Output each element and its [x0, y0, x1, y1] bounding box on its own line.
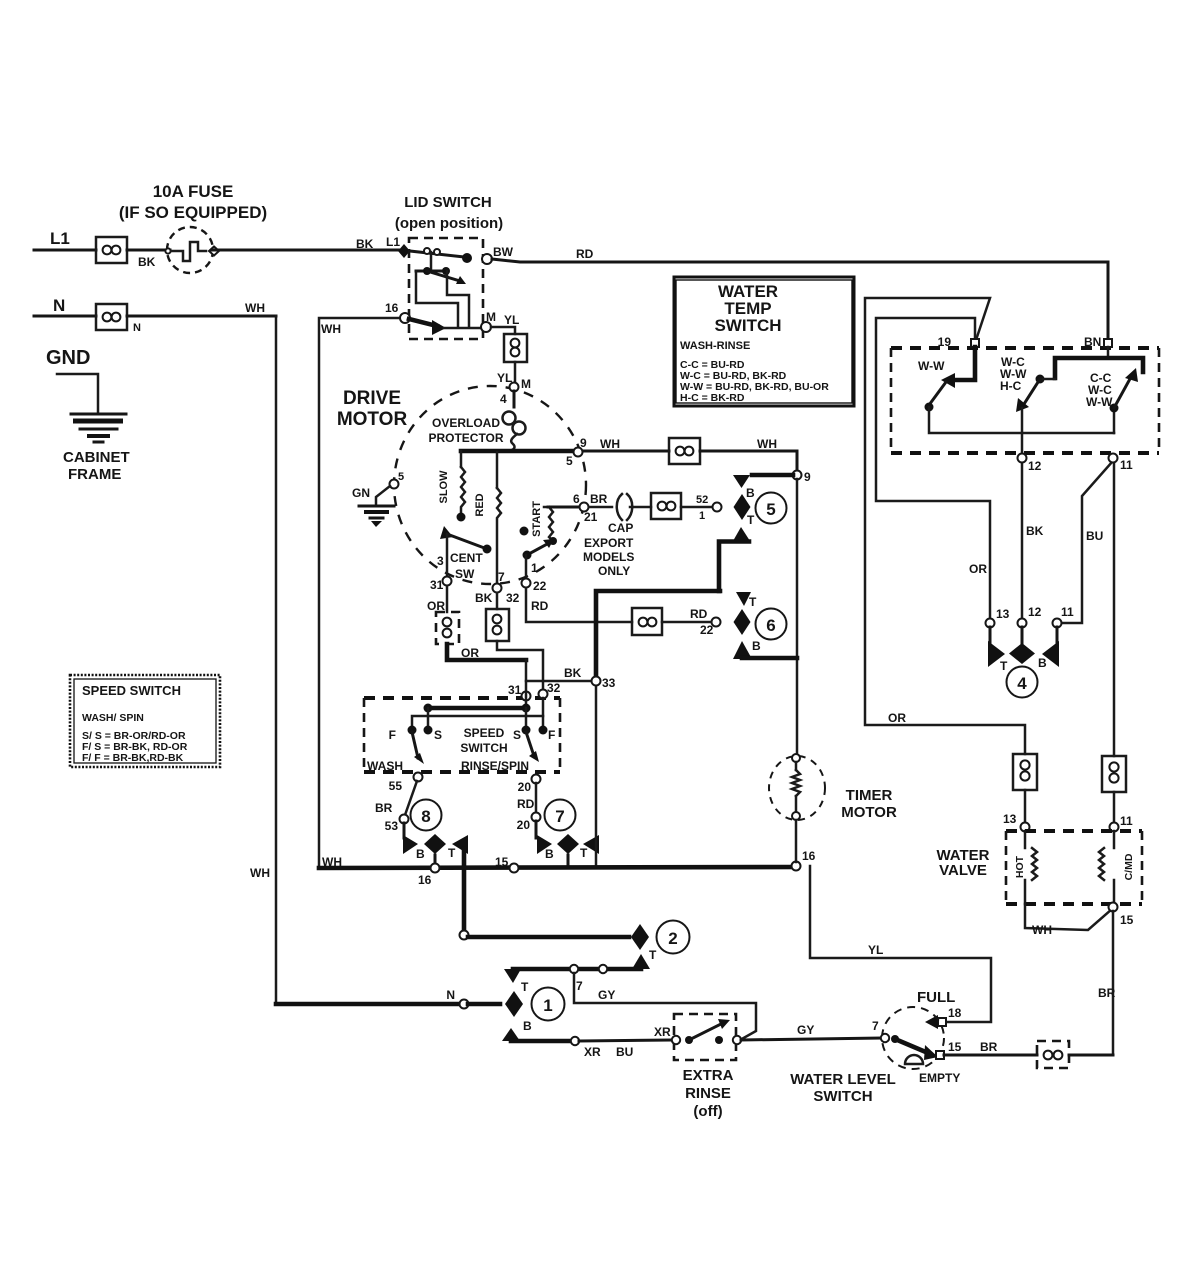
motor plug 5 (bow-tie cluster): [713, 475, 794, 591]
svg-text:OVERLOAD: OVERLOAD: [432, 416, 500, 430]
wire node31 to OR connector: [446, 586, 449, 612]
node N: [460, 1000, 469, 1009]
svg-text:EXPORT: EXPORT: [584, 536, 634, 550]
svg-text:18: 18: [948, 1006, 962, 1020]
svg-text:YL: YL: [868, 943, 883, 957]
svg-text:11: 11: [1120, 814, 1133, 828]
svg-text:22: 22: [700, 623, 714, 637]
node 12 (circle4): [1018, 619, 1027, 628]
svg-text:WASH/ SPIN: WASH/ SPIN: [82, 712, 144, 724]
svg-text:WASH-RINSE: WASH-RINSE: [680, 340, 750, 352]
node 15 (bus): [510, 864, 519, 873]
svg-text:RD: RD: [690, 607, 708, 621]
svg-text:1: 1: [543, 996, 552, 1015]
node 53: [400, 815, 409, 824]
start winding: [531, 501, 557, 545]
svg-text:(IF SO EQUIPPED): (IF SO EQUIPPED): [119, 203, 267, 222]
node 13 (circle4): [986, 619, 995, 628]
svg-text:MOTOR: MOTOR: [337, 409, 408, 430]
connector (RD): [632, 608, 662, 635]
svg-text:C/MD: C/MD: [1123, 853, 1135, 880]
wire connector to fuse: [127, 249, 170, 252]
wire to contact M: [444, 327, 481, 330]
svg-text:XR: XR: [584, 1045, 601, 1059]
wire BR connector to circle5 contact: [681, 506, 712, 509]
water level switch common contact and blade: [881, 1034, 938, 1060]
overload protector: [503, 391, 526, 450]
wire node 55 to node 53: [405, 781, 417, 815]
node 31 (speed switch): [522, 692, 531, 701]
speed switch blade wash: [412, 732, 424, 764]
terminal circle 6: [756, 609, 787, 640]
wire RD connector to circle6 contact: [662, 621, 711, 624]
start switch blade: [520, 527, 555, 579]
svg-text:GND: GND: [46, 347, 90, 369]
timer motor boundary (dashed circle): [769, 756, 825, 820]
slow winding: [438, 451, 466, 522]
svg-text:BW: BW: [493, 245, 514, 259]
wire YL from bus to water level switch FULL: [810, 866, 991, 1022]
svg-text:T: T: [749, 595, 757, 609]
label EXTRA RINSE (off): [683, 1067, 734, 1120]
cold valve solenoid: [1099, 831, 1135, 904]
svg-text:SLOW: SLOW: [438, 470, 450, 504]
svg-text:B: B: [545, 847, 554, 861]
water valve enclosure (dashed box): [1006, 831, 1142, 904]
wire 16 feed (WH) to lid switch lower pole: [319, 318, 405, 866]
svg-text:31: 31: [508, 683, 522, 697]
svg-text:9: 9: [804, 470, 811, 484]
svg-text:WH: WH: [1032, 923, 1052, 937]
wire node31 riser: [525, 681, 528, 708]
svg-text:15: 15: [495, 855, 509, 869]
svg-text:RD: RD: [531, 599, 549, 613]
drive motor boundary (dashed circle): [394, 386, 586, 584]
svg-text:B: B: [746, 486, 755, 500]
red winding: [474, 452, 505, 584]
motor plug 6 (bow-tie cluster): [712, 592, 798, 659]
connector (cold valve feed): [1102, 756, 1126, 792]
speed switch enclosure (dashed box): [364, 698, 560, 772]
temp switch BN bus bar: [1055, 347, 1143, 378]
svg-text:SWITCH: SWITCH: [460, 741, 507, 755]
svg-text:N: N: [133, 322, 141, 334]
svg-text:WH: WH: [250, 866, 270, 880]
svg-text:SWITCH: SWITCH: [813, 1088, 872, 1105]
svg-text:21: 21: [584, 510, 598, 524]
wire OR branch from node 19 (outer loop to hot valve): [865, 298, 1025, 754]
wire lower-left step: [416, 271, 458, 327]
lid switch second pole bar: [416, 267, 466, 284]
svg-text:7: 7: [498, 570, 505, 584]
svg-text:F/ F = BR-BK,RD-BK: F/ F = BR-BK,RD-BK: [82, 752, 184, 764]
svg-text:33: 33: [602, 676, 616, 690]
svg-text:M: M: [486, 310, 496, 324]
svg-text:B: B: [416, 847, 425, 861]
lid switch enclosure (dashed box): [409, 238, 483, 339]
svg-text:B: B: [523, 1019, 532, 1033]
motor plug 8 (bow-tie cluster): [403, 823, 468, 937]
svg-text:CAP: CAP: [608, 521, 633, 535]
svg-text:DRIVE: DRIVE: [343, 388, 401, 409]
svg-text:HOT: HOT: [1014, 855, 1026, 878]
speed switch legend box: [70, 675, 220, 767]
svg-text:13: 13: [1003, 812, 1017, 826]
connector (OR to hot valve): [1013, 754, 1037, 790]
wire BU from temp switch node 11 to circle4 pin 11: [1062, 462, 1112, 623]
connector (BR): [651, 493, 681, 519]
svg-text:WH: WH: [757, 437, 777, 451]
node M (motor top): [510, 383, 519, 392]
connector (WH): [669, 438, 700, 464]
svg-text:T: T: [448, 846, 456, 860]
contact FULL (18): [917, 989, 962, 1029]
wire WH bus inside motor: [461, 449, 575, 454]
terminal circle 2: [657, 921, 690, 954]
wire N feed to node N: [276, 1002, 460, 1007]
svg-text:L1: L1: [386, 235, 400, 249]
svg-text:SWITCH: SWITCH: [714, 316, 781, 335]
svg-text:7: 7: [576, 979, 583, 993]
water temp switch enclosure (dashed box): [891, 348, 1159, 453]
valve node 15: [1109, 903, 1118, 912]
node 31 (motor): [443, 577, 452, 586]
svg-text:7: 7: [555, 807, 564, 826]
motor plug 7 (bow-tie cluster): [536, 821, 599, 866]
svg-text:T: T: [580, 846, 588, 860]
wire WH bus (bottom of motor box): [319, 867, 797, 868]
svg-text:20: 20: [517, 818, 531, 832]
svg-text:5: 5: [766, 500, 775, 519]
svg-text:BK: BK: [475, 591, 493, 605]
svg-text:BU: BU: [1086, 529, 1103, 543]
wire riser node9 down to circle6 join: [796, 479, 799, 658]
node 19: [971, 339, 979, 347]
node 32 (speed switch): [539, 690, 548, 699]
svg-text:WH: WH: [245, 301, 265, 315]
svg-text:FULL: FULL: [917, 989, 955, 1006]
terminal circle 5: [756, 493, 787, 524]
wire connector to valve node 13: [1024, 790, 1027, 822]
contact BW: [482, 254, 492, 264]
svg-text:N: N: [53, 296, 65, 315]
node 21: [580, 503, 589, 512]
wire YL from M down to connector: [491, 327, 515, 334]
svg-text:55: 55: [389, 779, 403, 793]
svg-text:52: 52: [696, 494, 708, 506]
svg-text:3: 3: [437, 554, 444, 568]
node 22 (motor): [522, 579, 531, 588]
pressure dome symbol: [905, 1055, 923, 1064]
wire EMPTY to connector: [944, 1054, 1037, 1057]
svg-text:5: 5: [398, 471, 404, 483]
temp switch pole center: [1000, 355, 1055, 457]
wire connector to valve node 11: [1113, 792, 1116, 822]
svg-text:S: S: [434, 728, 442, 742]
svg-text:CABINET: CABINET: [63, 449, 130, 466]
svg-text:BR: BR: [375, 801, 393, 815]
svg-text:T: T: [1000, 659, 1008, 673]
terminal circle 8: [411, 800, 442, 831]
svg-text:4: 4: [1017, 674, 1027, 693]
svg-text:FRAME: FRAME: [68, 466, 121, 483]
lid switch lower pole (16) contact and blade: [400, 313, 446, 335]
svg-text:15: 15: [1120, 913, 1134, 927]
wire connector to motor M node: [514, 362, 517, 383]
wire WH vertical down left side: [275, 316, 278, 1004]
capacitor (export models): [617, 494, 651, 520]
svg-text:12: 12: [1028, 459, 1042, 473]
wire XR/BU from circle1-B to extra rinse: [511, 1037, 671, 1059]
wire WH below valve: [1025, 904, 1112, 937]
svg-text:TIMER: TIMER: [846, 787, 893, 804]
svg-text:1: 1: [531, 561, 538, 575]
extra rinse switch (dashed box): [654, 1014, 741, 1060]
wire WH to corner, down to node 9: [700, 451, 797, 471]
svg-text:OR: OR: [888, 711, 906, 725]
svg-text:(off): (off): [693, 1103, 722, 1120]
svg-text:32: 32: [547, 681, 561, 695]
wire WH to connector: [583, 450, 669, 453]
svg-text:F: F: [389, 728, 396, 742]
svg-text:6: 6: [573, 492, 580, 506]
water level switch boundary (dashed circle): [882, 1007, 944, 1069]
node 11 (circle4): [1053, 619, 1062, 628]
svg-text:31: 31: [430, 578, 444, 592]
svg-text:BR: BR: [1098, 986, 1116, 1000]
svg-text:4: 4: [500, 392, 507, 406]
node 16 (bus right, timer): [792, 862, 801, 871]
connector (disconnect) on L1: [96, 237, 127, 263]
node 20 (upper): [532, 775, 541, 784]
node junction (circle2 branch): [460, 931, 469, 940]
speed switch contacts F S / S F: [389, 726, 556, 743]
connector (BK): [486, 609, 509, 641]
svg-text:YL: YL: [504, 313, 519, 327]
svg-text:START: START: [531, 501, 543, 537]
svg-text:L1: L1: [50, 229, 70, 248]
wire BK connector to node 32 of speed switch: [497, 641, 543, 689]
contact M: [481, 322, 491, 332]
svg-text:PROTECTOR: PROTECTOR: [428, 431, 503, 445]
wire N run, label WH: [127, 315, 276, 318]
node 55: [414, 773, 423, 782]
valve node 11: [1110, 823, 1119, 832]
node 32 (motor, BK): [493, 584, 502, 593]
svg-text:XR: XR: [654, 1025, 671, 1039]
svg-text:EXTRA: EXTRA: [683, 1067, 734, 1084]
motor plug 2 (bow-tie cluster): [468, 924, 657, 969]
wire fuse to lid switch, labels BK / L1: [212, 249, 399, 252]
svg-text:T: T: [649, 948, 657, 962]
svg-text:BK: BK: [138, 255, 156, 269]
svg-text:T: T: [521, 980, 529, 994]
node 16 (bus left): [431, 864, 440, 873]
temp switch right labels: [1086, 371, 1113, 409]
motor plug 1 (bow-tie cluster): [468, 980, 532, 1041]
svg-text:8: 8: [421, 807, 430, 826]
svg-text:W-W: W-W: [918, 359, 945, 373]
motor ground GN: [352, 471, 404, 527]
connector (disconnect) on N: [96, 304, 127, 330]
label CAP EXPORT MODELS ONLY: [583, 521, 634, 578]
node 11: [1109, 454, 1118, 463]
svg-text:10A FUSE: 10A FUSE: [153, 182, 234, 201]
svg-text:EMPTY: EMPTY: [919, 1071, 960, 1085]
svg-text:M: M: [521, 377, 531, 391]
water temp switch legend box: [674, 277, 854, 406]
svg-text:CENT: CENT: [450, 551, 483, 565]
svg-text:BK: BK: [564, 666, 582, 680]
svg-text:20: 20: [518, 780, 532, 794]
speed switch lower link: [412, 698, 543, 730]
svg-text:15: 15: [948, 1040, 962, 1054]
svg-text:BR: BR: [590, 492, 608, 506]
svg-text:11: 11: [1120, 458, 1133, 472]
svg-text:N: N: [446, 988, 455, 1002]
temp switch pole common right riser: [1110, 368, 1139, 433]
svg-text:6: 6: [766, 616, 775, 635]
svg-text:T: T: [747, 513, 755, 527]
wire node21 to cap: [589, 506, 612, 509]
svg-text:F: F: [548, 728, 555, 742]
node 9 (right riser): [793, 471, 802, 480]
connector (OR): [436, 612, 459, 644]
svg-text:WATER LEVEL: WATER LEVEL: [790, 1071, 896, 1088]
svg-text:GN: GN: [352, 486, 370, 500]
svg-text:RD: RD: [576, 247, 594, 261]
svg-text:13: 13: [996, 607, 1010, 621]
terminal circle 1: [532, 988, 565, 1021]
svg-text:W-W: W-W: [1086, 395, 1113, 409]
svg-text:RD: RD: [517, 797, 535, 811]
svg-text:SW: SW: [455, 567, 475, 581]
speed switch bar (thick): [424, 704, 531, 728]
wire RD down from node 20: [535, 783, 538, 813]
svg-text:16: 16: [385, 301, 399, 315]
svg-text:S: S: [513, 728, 521, 742]
svg-text:ONLY: ONLY: [598, 564, 630, 578]
wire node to BK connector: [496, 593, 499, 609]
wire RD from node 22 to connector: [526, 588, 632, 622]
wire link rows: [430, 252, 433, 271]
svg-text:BK: BK: [356, 237, 374, 251]
svg-text:BN: BN: [1084, 335, 1101, 349]
ground CABINET FRAME symbol: [57, 374, 126, 442]
node BN: [1104, 339, 1112, 347]
lid switch upper pole contacts: [424, 248, 430, 254]
wire branch from node 19 to circle4 pin13: [876, 318, 990, 618]
svg-text:BK: BK: [1026, 524, 1044, 538]
svg-text:BU: BU: [616, 1045, 633, 1059]
svg-text:H-C = BK-RD: H-C = BK-RD: [680, 392, 745, 404]
wire BK from temp switch node 12 to circle4 pin 12: [1021, 462, 1024, 618]
wire link circle2-T to circle1-T: [504, 965, 641, 993]
hot valve solenoid: [1014, 831, 1037, 904]
speed switch blade rinse/spin: [526, 732, 539, 762]
svg-text:WH: WH: [321, 322, 341, 336]
wire RD (top run to right side): [492, 259, 1108, 338]
svg-text:32: 32: [506, 591, 520, 605]
node 9/5 (motor): [574, 448, 583, 457]
svg-text:RED: RED: [474, 493, 486, 516]
svg-text:(open position): (open position): [395, 215, 503, 232]
svg-text:19: 19: [938, 335, 952, 349]
svg-text:11: 11: [1061, 605, 1074, 619]
terminal circle 7: [545, 800, 576, 831]
node 33: [592, 677, 601, 686]
svg-text:GY: GY: [797, 1023, 814, 1037]
svg-text:5: 5: [566, 454, 573, 468]
svg-text:LID SWITCH: LID SWITCH: [404, 194, 492, 211]
wire OR connector to node 33 run: [447, 644, 526, 660]
wire L1 to connector: [34, 249, 96, 252]
svg-text:9: 9: [580, 436, 587, 450]
svg-text:2: 2: [668, 929, 677, 948]
svg-text:SPEED SWITCH: SPEED SWITCH: [82, 683, 181, 698]
svg-text:YL: YL: [497, 371, 512, 385]
fuse F1 (10A, dashed circle with element): [165, 227, 219, 273]
svg-text:MOTOR: MOTOR: [841, 804, 897, 821]
svg-text:B: B: [752, 639, 761, 653]
wire BR from start to cap/export: [548, 506, 580, 509]
terminal circle 4: [1007, 667, 1038, 698]
svg-text:MODELS: MODELS: [583, 550, 634, 564]
wire thick common (to speed switch riser): [596, 591, 720, 677]
wire from temp switch node 11 down to water valve (cold): [1113, 462, 1116, 756]
wire BR to valve riser: [1069, 1054, 1113, 1057]
svg-text:VALVE: VALVE: [939, 862, 987, 879]
svg-text:SPEED: SPEED: [464, 726, 505, 740]
connector (BR): [1037, 1041, 1069, 1068]
svg-text:OR: OR: [969, 562, 987, 576]
svg-text:GY: GY: [598, 988, 615, 1002]
svg-text:B: B: [1038, 656, 1047, 670]
timer motor winding: [792, 754, 800, 862]
wire GY from splice 7 to extra rinse: [574, 973, 756, 1040]
node 20 (lower): [532, 813, 541, 822]
wire riser node33 to bus: [595, 677, 598, 866]
wire BR from valve node 15 down: [1112, 911, 1115, 1055]
svg-text:WH: WH: [322, 855, 342, 869]
node 12: [1018, 454, 1027, 463]
svg-text:OR: OR: [461, 646, 479, 660]
connector (YL) below lid switch: [504, 334, 527, 362]
motor plug 4 (bow-tie cluster): [988, 627, 1059, 673]
cent sw blade: [437, 526, 492, 581]
temp switch pole W-W (left): [918, 347, 1114, 433]
svg-text:53: 53: [385, 819, 399, 833]
svg-text:WASH: WASH: [367, 759, 403, 773]
wire N to connector: [34, 315, 96, 318]
svg-text:WH: WH: [600, 437, 620, 451]
svg-text:1: 1: [699, 510, 705, 522]
wire L1 node to upper contact: [410, 251, 464, 257]
svg-text:16: 16: [418, 873, 432, 887]
svg-text:16: 16: [802, 849, 816, 863]
valve node 13: [1021, 823, 1030, 832]
svg-text:7: 7: [872, 1019, 879, 1033]
node L1 (diamond): [398, 244, 410, 258]
svg-text:RINSE: RINSE: [685, 1085, 731, 1102]
svg-text:H-C: H-C: [1000, 379, 1022, 393]
svg-text:BR: BR: [980, 1040, 998, 1054]
contact EMPTY (15): [936, 1040, 998, 1059]
svg-text:22: 22: [533, 579, 547, 593]
wire GY to water level switch: [741, 1019, 881, 1040]
svg-text:RINSE/SPIN: RINSE/SPIN: [461, 759, 529, 773]
wire step to M contact: [447, 271, 469, 327]
